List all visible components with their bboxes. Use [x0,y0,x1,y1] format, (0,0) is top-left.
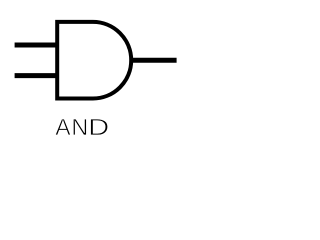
svg-text:N: N [71,114,88,140]
svg-text:D: D [88,114,109,140]
svg-text:A: A [55,114,71,140]
